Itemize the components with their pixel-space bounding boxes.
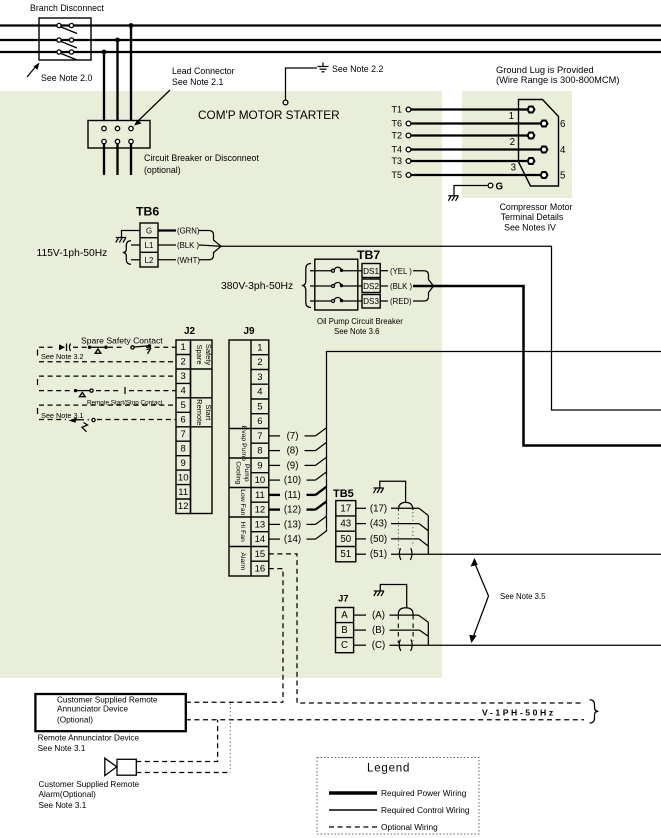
- wire TB6 L1 out: [158, 244, 176, 246]
- svg-text:(17): (17): [370, 503, 387, 514]
- wire L2 bus: [0, 39, 661, 41]
- svg-text:12: 12: [178, 501, 189, 512]
- ground symbol earth 2.2: [318, 63, 329, 72]
- wire TB6 L2 out: [158, 259, 176, 261]
- svg-text:5: 5: [257, 401, 262, 412]
- svg-text:Ground Lug is Provided: Ground Lug is Provided: [496, 65, 594, 75]
- terminal T3: [391, 156, 410, 166]
- callout arrow See Note 2.0: [27, 63, 40, 78]
- breaker pole DS1: [310, 267, 362, 272]
- svg-text:5: 5: [560, 171, 565, 182]
- svg-text:Start: Start: [204, 404, 213, 421]
- legend box: [317, 758, 479, 835]
- wire J7-C to edge: [354, 640, 661, 651]
- wire GRN merge: [199, 231, 221, 247]
- svg-text:4: 4: [560, 145, 566, 156]
- svg-text:See Note 3.5: See Note 3.5: [500, 592, 546, 601]
- wire T6: [411, 122, 542, 124]
- wire DS2 out: [380, 285, 388, 287]
- tick see note 3.2: [37, 350, 39, 356]
- svg-text:14: 14: [255, 534, 266, 545]
- wire YEL merge: [413, 271, 434, 286]
- wire BLK merge thick: [413, 285, 434, 288]
- wire J9-9: [269, 457, 327, 471]
- svg-text:12: 12: [255, 505, 266, 516]
- svg-text:Remote: Remote: [195, 399, 204, 425]
- svg-text:T5: T5: [391, 170, 402, 180]
- svg-text:(Optional): (Optional): [57, 716, 93, 725]
- wire J9-15 optional: [269, 554, 584, 703]
- pin 1: [526, 106, 535, 114]
- svg-text:Evap Pump: Evap Pump: [240, 426, 247, 461]
- TB7 cell DS1: [362, 264, 380, 278]
- switch pole 2: [57, 38, 77, 48]
- wire drop phase B: [116, 40, 118, 121]
- wire J9-13: [269, 516, 327, 530]
- svg-text:TB7: TB7: [357, 248, 380, 262]
- svg-text:(10): (10): [284, 475, 301, 486]
- wire alarm top optional: [136, 720, 217, 762]
- svg-text:(Wire Range is 300-800MCM): (Wire Range is 300-800MCM): [496, 75, 619, 85]
- svg-text:T4: T4: [391, 145, 402, 155]
- svg-text:11: 11: [255, 490, 265, 501]
- wire TB6 L1 stub: [131, 244, 140, 246]
- svg-text:16: 16: [255, 564, 266, 575]
- wire alarm bottom optional: [136, 772, 230, 774]
- svg-text:A: A: [341, 610, 348, 621]
- svg-text:(51): (51): [370, 549, 387, 560]
- svg-text:G: G: [496, 182, 504, 193]
- svg-text:4: 4: [181, 386, 186, 397]
- wire L1 bus: [0, 24, 661, 26]
- contact symbol row1: [88, 346, 108, 354]
- wire TB5-51 to edge: [356, 549, 661, 560]
- svg-text:Hi Fan: Hi Fan: [239, 522, 246, 542]
- svg-text:Optional Wiring: Optional Wiring: [381, 822, 438, 832]
- svg-text:1: 1: [181, 342, 186, 353]
- svg-text:(7): (7): [287, 431, 299, 442]
- svg-text:6: 6: [181, 415, 186, 426]
- svg-text:C: C: [341, 640, 348, 651]
- svg-text:See Note 2.2: See Note 2.2: [332, 64, 383, 74]
- wire CB1 out A: [103, 144, 105, 175]
- disconnect switch S1 box: [39, 18, 91, 60]
- J2 row dividers: [176, 355, 191, 500]
- wire TB6 G out: [158, 229, 176, 231]
- wire CB1 out B: [116, 144, 118, 175]
- wire CB1 out C: [130, 144, 132, 175]
- wire L3 bus: [0, 51, 661, 53]
- ground symbol chassis TB6: [116, 238, 126, 243]
- legend power wiring sample: [329, 791, 377, 795]
- svg-text:Safety: Safety: [204, 344, 213, 366]
- svg-text:J2: J2: [184, 326, 196, 337]
- wire TB5-50: [356, 534, 429, 546]
- wire drop phase A: [130, 26, 132, 122]
- wire J2-5 optional: [39, 404, 176, 406]
- legend optional wiring sample: [329, 826, 377, 828]
- svg-text:(50): (50): [370, 534, 387, 545]
- wire J2-6 optional: [39, 419, 176, 421]
- svg-text:3: 3: [511, 163, 516, 174]
- pin 5: [539, 171, 548, 179]
- wire J2-1 optional: [39, 346, 176, 348]
- wire WHT merge: [199, 246, 221, 259]
- svg-text:(BLK ): (BLK ): [177, 241, 199, 250]
- wire J9-14: [269, 531, 327, 545]
- svg-text:51: 51: [340, 549, 351, 560]
- wire J7 bundle vertical: [427, 622, 429, 645]
- wire TB5-43: [356, 519, 429, 531]
- wire T2: [411, 134, 529, 136]
- svg-text:7: 7: [257, 431, 262, 442]
- svg-text:Alarm: Alarm: [239, 552, 246, 570]
- svg-text:See Note 2.0: See Note 2.0: [41, 73, 92, 83]
- TB7 cell DS2: [362, 279, 380, 293]
- wire annunciator top optional: [186, 701, 283, 703]
- svg-text:2: 2: [257, 357, 262, 368]
- wire J2-2 optional: [39, 361, 176, 363]
- svg-text:T3: T3: [391, 156, 402, 166]
- svg-text:6: 6: [560, 119, 565, 130]
- wire J7-A: [354, 610, 429, 622]
- svg-text:COM'P MOTOR STARTER: COM'P MOTOR STARTER: [198, 108, 340, 122]
- svg-text:(WHT): (WHT): [177, 256, 200, 265]
- svg-text:10: 10: [255, 475, 266, 486]
- wire J9 bundle to right: [327, 352, 661, 532]
- switch symbol row6: [69, 418, 96, 432]
- tick row4: [124, 387, 126, 394]
- callout arrow lead connector: [134, 90, 170, 126]
- svg-text:(9): (9): [287, 460, 299, 471]
- wire J9-12 power: [269, 501, 327, 515]
- J9 number dividers: [251, 355, 269, 562]
- wire power net from TB7: [434, 286, 661, 446]
- wire control net from TB6: [221, 246, 661, 410]
- cable shield oval TB5: [398, 502, 413, 560]
- svg-text:Required Control Wiring: Required Control Wiring: [381, 805, 470, 815]
- svg-text:9: 9: [181, 458, 186, 469]
- wire J9-8: [269, 442, 327, 456]
- pin 2: [526, 132, 535, 140]
- switch symbol row1: [131, 344, 151, 354]
- svg-text:(optional): (optional): [144, 165, 181, 175]
- J9 pin numbers 1-16: [255, 342, 266, 574]
- junction dot phase B: [115, 38, 120, 43]
- breaker pole DS3: [310, 298, 362, 303]
- svg-text:50: 50: [340, 534, 351, 545]
- svg-text:L1: L1: [145, 241, 154, 250]
- svg-text:1: 1: [509, 111, 514, 122]
- J2 label column: [191, 340, 213, 514]
- wire T3: [411, 160, 529, 162]
- svg-text:(YEL ): (YEL ): [390, 267, 412, 276]
- svg-text:Spare: Spare: [195, 344, 204, 364]
- svg-text:See Note 2.1: See Note 2.1: [172, 77, 223, 87]
- svg-text:J7: J7: [338, 594, 349, 605]
- svg-text:(BLK ): (BLK ): [390, 282, 412, 291]
- svg-text:(8): (8): [287, 446, 299, 457]
- svg-text:Compressor Motor: Compressor Motor: [500, 202, 573, 212]
- svg-text:L2: L2: [145, 256, 154, 265]
- svg-text:(B): (B): [372, 625, 385, 636]
- breaker pole DS2: [310, 283, 362, 288]
- svg-text:8: 8: [181, 443, 186, 454]
- ground wire See Note 2.2: [283, 68, 317, 105]
- wire J2-3 optional: [39, 375, 176, 377]
- wire J7-B: [354, 625, 429, 636]
- svg-text:(13): (13): [284, 519, 301, 530]
- svg-text:Customer Supplied Remote: Customer Supplied Remote: [57, 696, 158, 705]
- svg-text:G: G: [146, 227, 152, 236]
- brace 380V supply: [302, 264, 311, 308]
- wire alarm shield dotted: [229, 704, 231, 773]
- svg-text:J9: J9: [244, 326, 256, 337]
- switch pole 3: [57, 50, 77, 60]
- svg-text:(12): (12): [284, 505, 301, 516]
- background panel main: [0, 91, 442, 678]
- svg-text:(A): (A): [372, 610, 385, 621]
- plug symbol row1: [59, 344, 71, 352]
- svg-text:V-1PH-50Hz: V-1PH-50Hz: [482, 708, 556, 718]
- CB1 bottom terminals: [102, 139, 133, 143]
- svg-text:(RED): (RED): [390, 297, 412, 306]
- wire TB6 G to ground: [122, 231, 141, 238]
- svg-text:2: 2: [510, 137, 515, 148]
- svg-text:TB5: TB5: [333, 488, 354, 500]
- svg-text:115V-1ph-50Hz: 115V-1ph-50Hz: [37, 248, 108, 259]
- svg-text:6: 6: [257, 416, 262, 427]
- svg-text:15: 15: [255, 549, 266, 560]
- svg-text:(GRN): (GRN): [177, 227, 200, 236]
- svg-text:T6: T6: [391, 119, 402, 129]
- junction dot phase C: [102, 50, 107, 55]
- svg-text:Required Power Wiring: Required Power Wiring: [381, 788, 467, 798]
- switch pole 1: [57, 23, 77, 33]
- svg-text:43: 43: [340, 519, 351, 530]
- svg-text:See Notes IV: See Notes IV: [504, 223, 556, 233]
- svg-text:Spare Safety Contact: Spare Safety Contact: [81, 336, 163, 346]
- svg-text:Lead Connector: Lead Connector: [172, 66, 235, 76]
- annunciator device box: [35, 694, 185, 731]
- wire T4: [411, 148, 542, 150]
- ground symbol chassis TB5: [374, 488, 384, 493]
- svg-text:Terminal Details: Terminal Details: [501, 212, 564, 222]
- wire TB5-17: [356, 503, 429, 515]
- wire RED merge: [413, 286, 434, 301]
- legend control wiring sample: [329, 809, 377, 811]
- brace V supply: [590, 700, 599, 723]
- wire TB6 L2 stub: [131, 259, 140, 261]
- svg-text:10: 10: [178, 472, 189, 483]
- svg-text:8: 8: [257, 446, 262, 457]
- svg-text:1: 1: [257, 342, 262, 353]
- motor connector outline: [519, 100, 559, 187]
- terminal T2: [391, 131, 410, 141]
- svg-text:Customer Supplied Remote: Customer Supplied Remote: [39, 780, 140, 789]
- svg-text:380V-3ph-50Hz: 380V-3ph-50Hz: [221, 281, 293, 292]
- alarm horn speaker: [105, 758, 137, 775]
- svg-text:(43): (43): [370, 519, 387, 530]
- svg-text:Cooling: Cooling: [235, 461, 242, 484]
- svg-text:3: 3: [181, 371, 186, 382]
- wire J2-4 optional: [39, 390, 176, 392]
- wire annunciator bottom optional: [186, 719, 584, 721]
- contact symbol row4: [74, 389, 93, 397]
- wire J9-10: [269, 472, 327, 486]
- terminal T6: [391, 119, 410, 129]
- wire J9-11 power: [269, 487, 327, 501]
- svg-text:7: 7: [181, 429, 186, 440]
- circuit breaker CB1 box: [88, 121, 150, 149]
- pin 4: [539, 146, 548, 154]
- wire G: [454, 186, 488, 196]
- svg-text:Pump: Pump: [243, 464, 250, 482]
- svg-text:See Note 3.1: See Note 3.1: [41, 411, 84, 420]
- svg-text:DS2: DS2: [363, 282, 379, 291]
- shield drain wire J7: [380, 585, 406, 609]
- svg-text:Oil Pump Circuit Breaker: Oil Pump Circuit Breaker: [317, 317, 403, 326]
- see note 3.5 arrow: [469, 558, 488, 643]
- wire T1: [411, 108, 529, 110]
- svg-text:2: 2: [181, 357, 186, 368]
- svg-text:B: B: [341, 625, 347, 636]
- ground symbol chassis J7: [374, 591, 384, 596]
- svg-text:TB6: TB6: [136, 205, 159, 219]
- wire drop phase C: [103, 52, 105, 121]
- svg-text:(11): (11): [284, 490, 301, 501]
- svg-text:5: 5: [181, 400, 186, 411]
- terminal G: [488, 182, 503, 193]
- svg-text:Remote Annunciator Device: Remote Annunciator Device: [38, 734, 140, 743]
- junction dot phase A: [129, 23, 134, 28]
- svg-text:13: 13: [255, 519, 266, 530]
- svg-text:9: 9: [257, 460, 262, 471]
- svg-text:See Note 3.1: See Note 3.1: [39, 801, 87, 810]
- terminal T1: [391, 105, 410, 115]
- svg-text:(C): (C): [372, 640, 385, 651]
- shield drain wire TB5: [380, 481, 406, 503]
- svg-text:Annunciator Device: Annunciator Device: [57, 705, 128, 714]
- svg-text:Legend: Legend: [367, 763, 410, 775]
- oil pump breaker box: [315, 259, 358, 310]
- svg-text:See Note 3.2: See Note 3.2: [41, 352, 84, 361]
- svg-text:17: 17: [340, 503, 351, 514]
- svg-text:Low Fan: Low Fan: [239, 489, 246, 515]
- background panel right (terminal details): [462, 91, 572, 198]
- terminal T5: [391, 170, 410, 180]
- wire BLK merge: [199, 245, 221, 246]
- ground symbol chassis G: [448, 196, 458, 201]
- pin 6: [539, 120, 548, 128]
- cable shield oval J7 dashed: [398, 608, 413, 651]
- tick see note 3.1: [37, 408, 39, 414]
- svg-text:11: 11: [178, 487, 188, 498]
- svg-text:Branch Disconnect: Branch Disconnect: [30, 3, 104, 13]
- wire J9-16 optional: [269, 569, 283, 703]
- svg-text:See Note 3.1: See Note 3.1: [38, 744, 86, 753]
- svg-text:DS3: DS3: [363, 297, 379, 306]
- pin 3: [526, 157, 535, 165]
- wire J9-7: [269, 428, 327, 442]
- svg-text:3: 3: [257, 372, 262, 383]
- terminal T4: [391, 145, 410, 155]
- wire DS3 out: [380, 300, 388, 302]
- svg-text:4: 4: [257, 387, 262, 398]
- wire TB5 bundle vertical: [427, 516, 429, 555]
- wire DS1 out: [380, 270, 388, 272]
- svg-text:(14): (14): [284, 534, 301, 545]
- tick row3: [37, 379, 39, 385]
- svg-text:T2: T2: [391, 131, 402, 141]
- J9 label dividers: [229, 429, 251, 547]
- svg-text:See Note 3.6: See Note 3.6: [334, 327, 380, 336]
- J2 pin numbers 1-12: [178, 342, 189, 512]
- wire T5: [411, 174, 542, 176]
- svg-text:Alarm(Optional): Alarm(Optional): [39, 790, 97, 799]
- TB7 cell DS3: [362, 295, 380, 309]
- svg-text:Circuit Breaker or Disconneot: Circuit Breaker or Disconneot: [144, 153, 259, 163]
- brace 115V supply: [123, 241, 131, 264]
- svg-text:DS1: DS1: [363, 267, 379, 276]
- CB1 top terminals: [102, 126, 133, 130]
- svg-text:T1: T1: [391, 105, 402, 115]
